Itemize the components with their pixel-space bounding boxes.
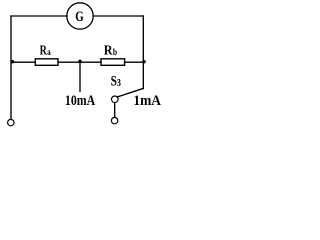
- wire top-right: galvanometer to top-right corner: [93, 15, 143, 17]
- switch S3 pivot: [112, 96, 119, 103]
- resistor Rb: [101, 59, 125, 66]
- junction dot right (node at right vertical and resistor row): [142, 60, 145, 63]
- svg-text:1mA: 1mA: [133, 93, 161, 109]
- terminal bottom-right: [111, 117, 117, 123]
- wire top-left: corner to galvanometer: [11, 15, 67, 17]
- svg-text:G: G: [75, 9, 84, 25]
- svg-text:a: a: [47, 48, 51, 58]
- wire below switch pivot: [114, 103, 116, 118]
- switch S3 blade: [117, 88, 143, 97]
- galvanometer G: [67, 3, 93, 29]
- svg-text:b: b: [113, 48, 117, 58]
- junction dot middle (tap between Ra and Rb): [78, 60, 81, 63]
- wire right vertical: top-right corner down to switch contact: [142, 16, 144, 89]
- svg-text:10mA: 10mA: [65, 93, 95, 109]
- label S3: [111, 74, 122, 90]
- wire resistor row segment 1: [11, 61, 35, 63]
- svg-text:3: 3: [117, 77, 122, 89]
- wire stub down from middle tap: [79, 62, 81, 91]
- label Ra: [40, 44, 51, 59]
- junction dot left (node at left vertical and resistor row): [11, 60, 14, 63]
- wire resistor row segment 2: [58, 61, 101, 63]
- terminal bottom-left: [8, 119, 14, 125]
- svg-text:R: R: [104, 44, 114, 59]
- resistor Ra: [35, 59, 58, 66]
- wire left vertical: top-left corner down to left terminal: [10, 16, 12, 119]
- label Rb: [104, 44, 117, 59]
- wire resistor row segment 3: [125, 61, 144, 63]
